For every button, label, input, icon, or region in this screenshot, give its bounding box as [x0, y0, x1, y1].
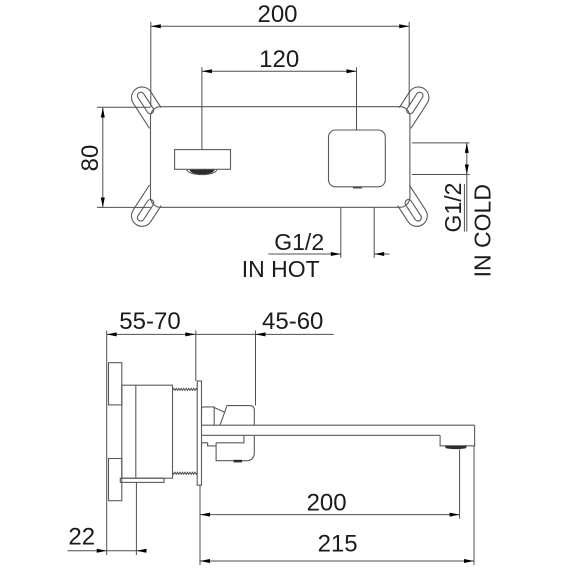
svg-text:120: 120	[259, 46, 299, 73]
svg-text:200: 200	[257, 1, 297, 28]
svg-text:80: 80	[77, 145, 104, 172]
svg-text:IN HOT: IN HOT	[242, 256, 320, 282]
svg-text:G1/2: G1/2	[440, 183, 466, 233]
svg-text:45-60: 45-60	[262, 308, 323, 335]
svg-text:22: 22	[68, 524, 95, 551]
svg-text:G1/2: G1/2	[274, 229, 324, 255]
svg-text:200: 200	[307, 489, 347, 516]
svg-text:215: 215	[318, 531, 358, 558]
svg-text:IN COLD: IN COLD	[469, 184, 495, 277]
svg-text:55-70: 55-70	[119, 308, 180, 335]
